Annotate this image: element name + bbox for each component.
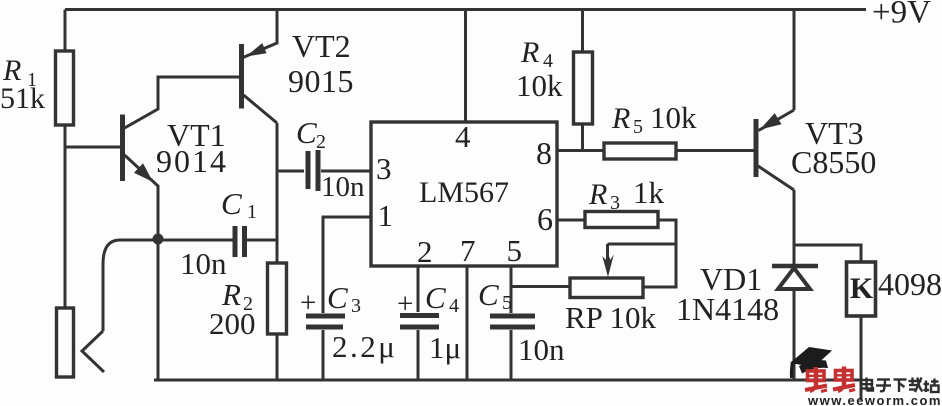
- svg-text:1: 1: [247, 201, 257, 223]
- svg-text:www.eeworm.com: www.eeworm.com: [807, 393, 942, 406]
- svg-text:LM567: LM567: [419, 176, 509, 209]
- svg-text:C: C: [478, 277, 499, 312]
- svg-text:4098: 4098: [878, 266, 942, 302]
- svg-text:2: 2: [417, 234, 433, 269]
- svg-text:VT2: VT2: [292, 28, 351, 64]
- svg-text:51k: 51k: [0, 82, 45, 115]
- svg-text:10n: 10n: [180, 246, 227, 281]
- svg-text:C: C: [327, 280, 348, 315]
- svg-text:+: +: [397, 288, 413, 320]
- svg-text:C: C: [425, 280, 446, 315]
- svg-text:R: R: [611, 102, 630, 135]
- svg-text:4: 4: [455, 119, 471, 154]
- svg-text:RP 10k: RP 10k: [565, 300, 657, 335]
- svg-text:200: 200: [209, 306, 256, 341]
- svg-text:9015: 9015: [288, 63, 354, 99]
- svg-text:10k: 10k: [516, 68, 563, 103]
- svg-text:C: C: [221, 186, 242, 221]
- svg-text:9014: 9014: [156, 143, 228, 179]
- svg-text:10n: 10n: [321, 171, 365, 203]
- svg-text:1N4148: 1N4148: [676, 291, 779, 327]
- svg-text:8: 8: [536, 135, 552, 171]
- svg-text:3: 3: [610, 192, 620, 214]
- svg-text:C: C: [296, 115, 317, 150]
- svg-text:C8550: C8550: [791, 144, 876, 180]
- svg-text:7: 7: [460, 233, 476, 268]
- svg-text:2: 2: [316, 131, 326, 153]
- svg-text:R: R: [588, 178, 607, 211]
- svg-text:10k: 10k: [650, 100, 697, 135]
- svg-text:10n: 10n: [518, 332, 565, 367]
- svg-text:3: 3: [376, 151, 392, 186]
- svg-text:+: +: [300, 287, 316, 319]
- svg-text:2.2μ: 2.2μ: [332, 329, 397, 364]
- svg-text:5: 5: [502, 292, 512, 314]
- svg-text:1μ: 1μ: [429, 330, 461, 365]
- svg-text:6: 6: [537, 201, 553, 237]
- svg-text:1k: 1k: [633, 175, 665, 210]
- svg-text:K: K: [850, 272, 874, 305]
- svg-text:1: 1: [378, 198, 394, 233]
- svg-text:5: 5: [507, 233, 523, 268]
- svg-text:R: R: [520, 36, 539, 69]
- svg-text:+9V: +9V: [872, 0, 931, 31]
- svg-text:4: 4: [449, 295, 459, 317]
- svg-text:5: 5: [633, 116, 643, 138]
- svg-text:3: 3: [351, 295, 361, 317]
